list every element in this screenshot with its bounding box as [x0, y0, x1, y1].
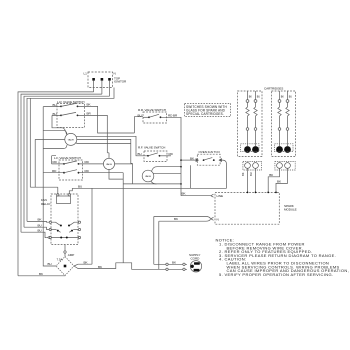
svg-text:L1: L1: [84, 72, 88, 76]
svg-text:RD: RD: [169, 152, 174, 156]
svg-text:CARTRIDGES: CARTRIDGES: [264, 86, 283, 90]
svg-text:BK: BK: [269, 173, 274, 177]
svg-text:BK: BK: [84, 260, 89, 264]
svg-text:BU: BU: [38, 223, 42, 227]
svg-text:RD BR: RD BR: [168, 114, 178, 118]
svg-text:VALVE: VALVE: [145, 175, 152, 178]
svg-text:SPECIAL CARTRIDGES.: SPECIAL CARTRIDGES.: [186, 112, 224, 116]
svg-text:OVEN IGN TCO: OVEN IGN TCO: [199, 150, 221, 154]
svg-text:5. VERIFY PROPER OPERATION AFT: 5. VERIFY PROPER OPERATION AFTER SERVICI…: [219, 272, 333, 277]
svg-text:N: N: [217, 217, 219, 221]
svg-text:BK: BK: [241, 172, 245, 176]
svg-text:RD: RD: [53, 160, 58, 164]
svg-text:BU: BU: [138, 114, 142, 118]
svg-text:BK: BK: [172, 260, 177, 264]
svg-text:CORD: CORD: [191, 256, 201, 260]
svg-text:BK: BK: [39, 272, 44, 276]
svg-text:AMP: AMP: [68, 253, 74, 257]
svg-text:BK: BK: [87, 103, 92, 107]
svg-text:BK: BK: [190, 156, 195, 160]
svg-text:LINE: LINE: [217, 194, 224, 198]
svg-text:VALVE: VALVE: [68, 138, 75, 141]
svg-text:R.R. VALVE SWITCH: R.R. VALVE SWITCH: [138, 108, 166, 112]
svg-text:BU: BU: [78, 184, 82, 188]
svg-text:L.F. VALVE SWITCH: L.F. VALVE SWITCH: [54, 156, 81, 160]
svg-text:BU: BU: [53, 112, 57, 116]
svg-text:7.5A: 7.5A: [57, 257, 64, 261]
svg-text:MODULE: MODULE: [284, 208, 297, 212]
svg-text:BU: BU: [53, 103, 57, 107]
svg-text:BK: BK: [182, 192, 187, 196]
svg-text:BU: BU: [257, 96, 261, 99]
svg-text:R.F. VALVE SWITCH: R.F. VALVE SWITCH: [138, 145, 165, 149]
svg-text:BK: BK: [249, 96, 253, 99]
svg-text:RD: RD: [52, 169, 57, 173]
svg-text:BU: BU: [249, 172, 253, 176]
svg-text:BU: BU: [48, 262, 52, 266]
svg-text:BK: BK: [277, 180, 282, 184]
svg-text:BK: BK: [38, 218, 43, 222]
svg-text:BU: BU: [138, 152, 142, 156]
svg-text:L.R. VALVE SWITCH: L.R. VALVE SWITCH: [57, 100, 84, 104]
svg-text:RD: RD: [85, 169, 90, 173]
svg-text:N: N: [114, 72, 116, 76]
svg-text:RELAY: RELAY: [41, 202, 50, 206]
svg-text:BR: BR: [87, 112, 92, 116]
svg-text:BU: BU: [38, 228, 42, 232]
svg-text:VALVE: VALVE: [106, 163, 113, 166]
svg-text:RD: RD: [85, 160, 90, 164]
svg-text:IGNITOR: IGNITOR: [114, 80, 127, 84]
svg-text:BK: BK: [281, 96, 285, 99]
svg-text:BU: BU: [289, 96, 293, 99]
svg-text:BK: BK: [174, 217, 179, 221]
